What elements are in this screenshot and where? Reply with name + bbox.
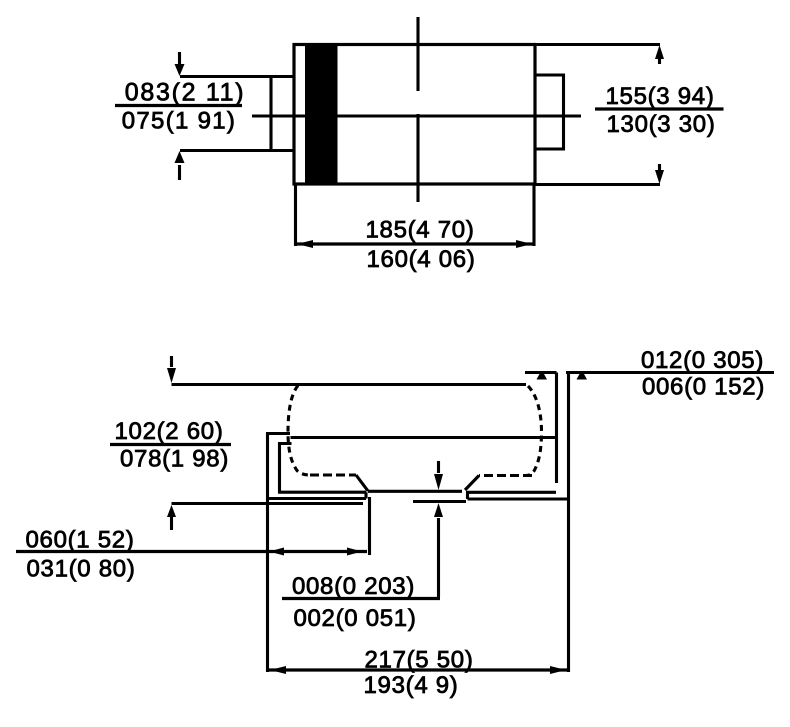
foot length dim line <box>16 550 367 553</box>
foot dim arrow right <box>347 548 362 556</box>
svg-text:012(0 305): 012(0 305) <box>641 347 764 374</box>
right lead tab <box>535 75 564 149</box>
svg-text:160(4 06): 160(4 06) <box>366 246 475 273</box>
svg-text:185(4 70): 185(4 70) <box>365 217 474 244</box>
standoff dim arrow lower + leader <box>434 503 443 597</box>
left dim arrow bottom <box>175 151 185 180</box>
bottom dim arrow right <box>516 240 532 248</box>
svg-text:193(4 9): 193(4 9) <box>364 672 459 699</box>
dim text .155(3.94)/.130(3.30) <box>595 83 724 138</box>
overall dim arrow right <box>550 666 566 674</box>
standoff leader horizontal / fraction bar <box>282 597 440 600</box>
overall dim arrow left <box>270 666 286 674</box>
dim text .012(0.305)/.006(0.152) <box>641 347 765 401</box>
side view: body outline dashed left edge <box>288 386 310 476</box>
horizontal centerline <box>252 114 581 117</box>
svg-text:060(1 52): 060(1 52) <box>25 527 134 554</box>
dim text .060(1.52)/.031(0.80) <box>25 527 135 583</box>
svg-text:102(2 60): 102(2 60) <box>114 418 223 445</box>
side view: seating plane extension line <box>172 502 364 505</box>
side view: body center bottom <box>368 490 462 493</box>
svg-text:078(1 98): 078(1 98) <box>120 446 229 473</box>
svg-text:031(0 80): 031(0 80) <box>26 556 135 583</box>
foot length extension line <box>368 497 371 555</box>
svg-text:075(1 91): 075(1 91) <box>122 108 236 135</box>
overall length dim line <box>268 668 569 671</box>
side view: right lead inner vertical <box>555 373 558 484</box>
lead thickness arrowheads <box>537 374 588 380</box>
side view: body outline dashed right edge <box>526 386 542 476</box>
side view: body bottom right slant <box>465 476 479 491</box>
height dim arrow top <box>167 356 176 383</box>
cathode band <box>305 44 338 186</box>
bottom dim extension lines <box>296 185 535 247</box>
side view: lead tip top edge <box>525 371 557 374</box>
svg-text:083(2 11): 083(2 11) <box>125 79 245 107</box>
left dim arrow top <box>175 52 185 76</box>
side view: lead thickness extension line <box>566 371 774 374</box>
svg-text:130(3 30): 130(3 30) <box>606 111 715 138</box>
left lead tab <box>180 77 294 151</box>
dim text .217(5.50)/.193(4.9) <box>364 647 474 700</box>
side view: left lead inner contour <box>280 444 292 493</box>
side view: body outline dashed bottom right <box>479 474 532 477</box>
side view: right foot bottom surface <box>468 492 569 499</box>
right dim arrow top <box>655 45 664 64</box>
svg-text:217(5 50): 217(5 50) <box>364 647 473 674</box>
side view: left foot top surface <box>278 491 366 494</box>
svg-text:008(0 203): 008(0 203) <box>292 573 415 600</box>
svg-text:155(3 94): 155(3 94) <box>605 83 714 110</box>
svg-text:006(0 152): 006(0 152) <box>642 374 765 401</box>
dim text .185(4.70)/.160(4.06) <box>365 217 475 274</box>
side view: body bottom left slant <box>356 475 368 491</box>
side view: left foot bottom surface <box>266 492 366 498</box>
svg-text:002(0 051): 002(0 051) <box>293 605 416 632</box>
side view: right foot top surface <box>466 491 556 494</box>
side view: right lead outer vertical + extension down <box>567 373 570 673</box>
top view body outline <box>294 45 535 185</box>
vertical centerline <box>416 17 419 202</box>
dim text .008(0.203)/.002(0.051) <box>292 573 417 632</box>
bottom dim arrow left <box>297 240 313 248</box>
side view: standoff reference tick <box>413 500 466 503</box>
side view: top line (max height plane / body top) <box>172 383 527 386</box>
dim text .102(2.60)/.078(1.98) <box>110 418 231 473</box>
foot dim arrow left <box>269 548 284 556</box>
height dim arrow bottom <box>167 505 176 530</box>
right dim arrow bottom <box>655 164 664 184</box>
right dim extension lines <box>535 45 660 185</box>
side view: body outline dashed bottom left <box>310 473 356 476</box>
side view: parting line <box>291 436 557 439</box>
standoff dim arrow upper <box>434 461 443 490</box>
bottom dim line <box>294 242 535 245</box>
side view: left lead outer contour <box>268 434 291 673</box>
dim text .083(2.11)/.075(1.91) <box>115 79 245 135</box>
